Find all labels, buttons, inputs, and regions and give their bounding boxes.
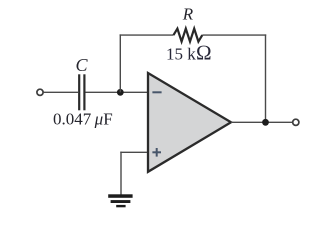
svg-text:15 kΩ: 15 kΩ — [166, 41, 212, 65]
wire: junction up to feedback — [119, 34, 121, 92]
op-amp U1 triangle — [148, 73, 231, 172]
op-amp minus input sign — [152, 91, 161, 93]
op-amp plus input sign — [152, 151, 161, 153]
capacitor C1 left plate — [78, 74, 80, 110]
svg-text:C: C — [75, 55, 88, 75]
node junction dot at inverting input — [117, 89, 124, 96]
wire: capacitor to op-amp inverting input — [85, 91, 147, 93]
svg-text:0.047 μF: 0.047 μF — [53, 110, 113, 129]
wire: op-amp output to terminal — [231, 121, 293, 123]
output terminal circle — [293, 119, 299, 125]
wire: feedback top right segment — [202, 34, 266, 36]
wire: feedback right vertical down to output node — [265, 34, 267, 122]
ground symbol — [108, 194, 132, 207]
wire: input terminal to capacitor — [43, 91, 78, 93]
resistor R zigzag — [174, 29, 203, 42]
svg-text:R: R — [182, 5, 194, 24]
capacitor C1 right plate — [83, 74, 85, 110]
wire: non-inverting input to ground corner — [120, 151, 147, 153]
node junction dot at output — [262, 119, 269, 126]
wire: feedback top left segment — [120, 34, 174, 36]
input terminal circle — [37, 89, 43, 95]
wire: down to ground — [120, 152, 122, 195]
